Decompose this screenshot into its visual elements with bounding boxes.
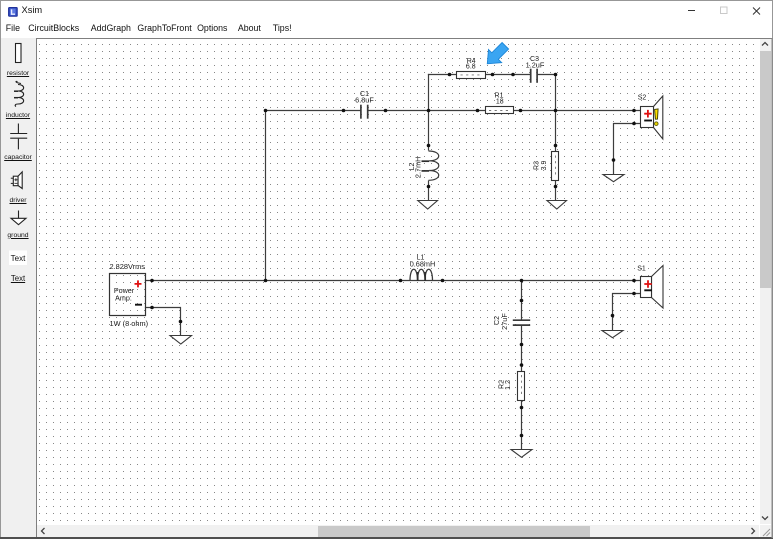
horizontal scrollbar xyxy=(37,525,759,537)
power amp U1 xyxy=(110,262,154,328)
wire: riser x=428 from R4 branch to L2 ground xyxy=(428,75,430,201)
svg-text:6.8uF: 6.8uF xyxy=(355,95,374,104)
resistor R4 xyxy=(448,58,495,78)
driver S2 xyxy=(632,95,663,140)
resize grip xyxy=(763,529,770,536)
svg-text:3.9: 3.9 xyxy=(541,161,548,171)
ground under R2 xyxy=(511,450,532,458)
wire: R4 branch y=74 xyxy=(429,74,556,76)
S2 warning exclamation icon xyxy=(655,109,659,119)
wire: riser x=555 C3/R3 xyxy=(555,75,557,201)
scrollbar corner xyxy=(760,525,771,537)
amp minus terminal mark xyxy=(135,304,142,306)
toolbar resistor icon xyxy=(16,44,22,63)
S2 terminal dots xyxy=(632,109,636,113)
S2 plus terminal mark xyxy=(644,110,652,118)
svg-text:27uF: 27uF xyxy=(500,313,509,330)
wire: C2/R2 branch x=521 xyxy=(521,281,523,450)
svg-text:1W (8 ohm): 1W (8 ohm) xyxy=(110,319,149,328)
inductor L2 xyxy=(409,144,439,189)
app icon xyxy=(8,7,18,17)
svg-text:2.7mH: 2.7mH xyxy=(414,157,423,179)
wire: bottom net y=280 xyxy=(146,280,642,282)
C3 terminal dots xyxy=(511,73,515,77)
R3 terminal dots xyxy=(554,144,558,148)
ground under amp xyxy=(170,320,192,344)
ground under S1 xyxy=(602,314,623,338)
svg-text:S2: S2 xyxy=(638,95,647,102)
R4 terminal dots xyxy=(448,73,452,77)
toolbar xyxy=(0,38,36,538)
menu bar xyxy=(0,22,773,38)
svg-text:R3: R3 xyxy=(533,161,540,170)
amp terminal dots xyxy=(150,279,154,283)
svg-text:Amp.: Amp. xyxy=(115,293,132,302)
toolbar inductor icon xyxy=(14,81,24,106)
capacitor C1 xyxy=(342,91,388,119)
resistor R1 xyxy=(476,92,523,113)
wire: riser x=265 xyxy=(265,111,267,281)
svg-text:1.2uF: 1.2uF xyxy=(526,60,545,69)
amp plus terminal mark xyxy=(135,280,142,287)
wire: S2 minus to ground xyxy=(614,124,642,175)
wire: amp minus to ground xyxy=(146,308,181,336)
resistor R3 xyxy=(533,144,558,189)
S1 plus terminal mark xyxy=(644,280,652,288)
svg-text:1.2: 1.2 xyxy=(505,380,512,390)
junction node: riser top at top net xyxy=(264,109,268,113)
toolbar capacitor icon xyxy=(10,124,27,150)
junction node: C3/R3 riser at top net xyxy=(554,109,558,113)
C1 terminal dots xyxy=(342,109,346,113)
driver S1 xyxy=(632,266,663,309)
ground under S2 xyxy=(603,158,624,182)
wire: S1 minus to ground xyxy=(613,294,642,331)
svg-text:Text: Text xyxy=(11,254,26,263)
junction node: C2 branch at woofer net xyxy=(520,279,524,283)
capacitor C3 xyxy=(511,56,557,83)
ground under R3 xyxy=(547,201,567,210)
capacitor C2 xyxy=(494,299,530,347)
ground under L2 xyxy=(418,201,438,210)
svg-text:0.68mH: 0.68mH xyxy=(410,259,436,268)
vertical scrollbar xyxy=(760,39,771,524)
S1 terminal dots xyxy=(632,279,636,283)
close xyxy=(753,8,760,15)
mouse cursor arrow xyxy=(481,39,512,70)
R2 terminal dots and ground node xyxy=(520,363,524,367)
inductor L1 xyxy=(399,254,445,282)
L2 terminal dots xyxy=(427,144,431,148)
junction node: L2/R4 branch at top net xyxy=(427,109,431,113)
svg-text:S1: S1 xyxy=(637,266,646,273)
toolbar driver icon xyxy=(11,172,22,189)
resistor R2 xyxy=(499,363,525,437)
L1 terminal dots xyxy=(399,279,403,283)
toolbar labels xyxy=(0,70,36,77)
R1 terminal dots xyxy=(476,109,480,113)
svg-text:2.828Vrms: 2.828Vrms xyxy=(110,262,146,271)
S2 minus terminal mark xyxy=(644,120,652,122)
window buttons xyxy=(680,0,773,22)
junction node: riser bottom at amp net xyxy=(264,279,268,283)
toolbar Text button xyxy=(9,251,27,266)
minimize xyxy=(688,10,695,12)
svg-text:6.8: 6.8 xyxy=(466,64,476,71)
C2 terminal dots xyxy=(520,299,524,303)
wire: top net y=110 xyxy=(266,110,642,112)
S1 minus terminal mark xyxy=(644,289,652,291)
toolbar ground icon xyxy=(11,211,26,225)
maximize (light) xyxy=(721,7,728,14)
svg-text:18: 18 xyxy=(496,99,504,106)
title bar xyxy=(0,0,773,22)
